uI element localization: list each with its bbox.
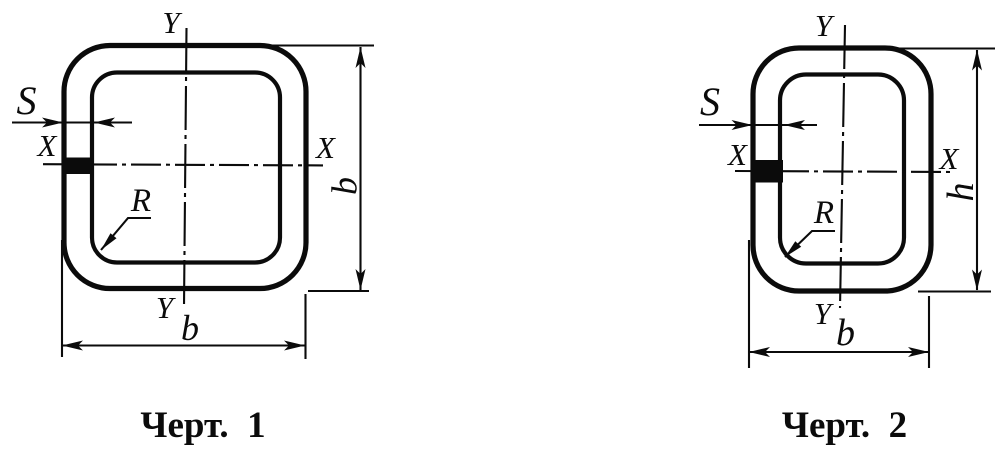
right dimension h (vertical): top extension line	[885, 47, 995, 49]
right bottom dim arrow right	[908, 347, 929, 357]
right vertical dim arrow down	[972, 270, 982, 291]
svg-text:Черт. 1: Черт. 1	[140, 405, 265, 446]
left S arrow right-pointing	[42, 118, 63, 128]
left bottom right extension line	[304, 294, 306, 359]
left dimension b (horizontal, bottom): left extension line	[61, 240, 63, 357]
svg-text:R: R	[813, 195, 834, 231]
right S arrow left-pointing	[784, 120, 805, 130]
svg-text:b: b	[836, 312, 855, 354]
right dimension b (horizontal, bottom): left extension line	[748, 240, 750, 368]
svg-text:X: X	[726, 137, 748, 172]
svg-text:h: h	[940, 183, 982, 202]
left S dimension line	[12, 121, 132, 123]
right S dimension line	[699, 124, 817, 126]
left tube outer outline	[64, 46, 306, 289]
right tube inner outline	[780, 75, 904, 264]
right wall-thickness black mark	[751, 160, 784, 183]
left R leader arrowhead	[101, 233, 117, 250]
right bottom right extension line	[928, 296, 930, 368]
svg-text:S: S	[700, 79, 720, 124]
right R leader arrowhead	[785, 241, 801, 257]
svg-text:X: X	[36, 128, 58, 163]
left vertical dimension bottom extension line	[308, 290, 369, 292]
right bottom dimension line	[749, 351, 929, 353]
left S arrow left-pointing	[94, 118, 115, 128]
svg-text:Черт. 2: Черт. 2	[782, 405, 907, 446]
left bottom dim arrow left	[62, 341, 83, 351]
right Y axis center line	[840, 25, 845, 308]
right R leader line	[785, 231, 835, 257]
left wall-thickness black mark	[62, 158, 92, 175]
svg-text:S: S	[17, 78, 37, 123]
right vertical dimension line	[976, 50, 978, 290]
svg-text:R: R	[130, 183, 151, 219]
svg-text:b: b	[325, 177, 365, 195]
left X axis center line	[43, 164, 323, 165]
left dimension b (vertical, right side): top extension line	[268, 44, 374, 46]
svg-text:X: X	[314, 130, 336, 165]
svg-text:b: b	[181, 308, 199, 348]
right vertical dimension bottom extension line	[918, 290, 991, 292]
left R leader line	[101, 218, 151, 250]
left bottom dimension line	[62, 344, 305, 346]
svg-text:Y: Y	[815, 8, 835, 43]
left vertical dim arrow up	[356, 47, 366, 68]
right vertical dim arrow up	[972, 50, 982, 71]
right bottom dim arrow left	[749, 347, 770, 357]
left tube inner outline	[92, 73, 280, 263]
svg-text:X: X	[938, 141, 960, 176]
svg-text:Y: Y	[162, 5, 182, 40]
left bottom dim arrow right	[284, 341, 305, 351]
left Y axis center line	[184, 28, 187, 307]
svg-text:Y: Y	[156, 290, 176, 325]
right S arrow right-pointing	[732, 120, 753, 130]
right tube outer outline	[753, 48, 931, 291]
right X axis center line	[735, 171, 952, 172]
left vertical dimension line	[359, 47, 361, 290]
svg-text:Y: Y	[814, 296, 834, 331]
left vertical dim arrow down	[356, 269, 366, 290]
